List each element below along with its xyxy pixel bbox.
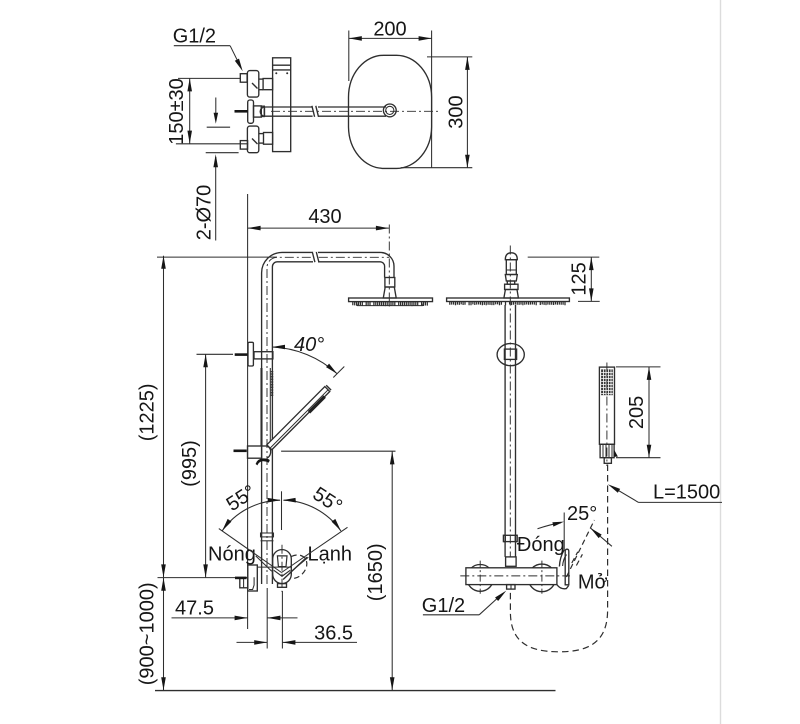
- hand shower collar ribs: [603, 444, 612, 457]
- svg-text:G1/2: G1/2: [173, 26, 216, 48]
- svg-text:Nóng: Nóng: [208, 543, 256, 565]
- wall bracket ring (side): [497, 344, 524, 366]
- hose outlet (side): [507, 585, 515, 590]
- overhead shower (side view): [447, 298, 570, 302]
- svg-text:200: 200: [373, 19, 406, 41]
- label G1/2 (bottom) with leader: [422, 591, 507, 617]
- mixer centreline (front vertical): [281, 545, 283, 592]
- svg-text:40°: 40°: [294, 334, 324, 356]
- svg-text:G1/2: G1/2: [422, 595, 465, 617]
- side riser pipe: [505, 305, 515, 557]
- svg-text:150±30: 150±30: [166, 78, 188, 145]
- 40 deg swing arc: [272, 347, 337, 374]
- dimension 36.5: [237, 623, 358, 645]
- mixer wall flange (front): [240, 565, 257, 591]
- svg-text:Lạnh: Lạnh: [308, 543, 353, 565]
- dimension (1650): [281, 451, 395, 690]
- svg-text:125: 125: [569, 262, 591, 295]
- wall line: [247, 194, 249, 629]
- mixer centreline (side horizontal): [460, 575, 570, 577]
- label 2-Ø70: [194, 153, 239, 241]
- collar wedge: [614, 450, 618, 457]
- extension line at arm level: [157, 256, 277, 258]
- label L=1500 with leader: [608, 482, 722, 504]
- overhead shower nozzles (front): [353, 302, 428, 306]
- svg-text:205: 205: [626, 396, 648, 429]
- top ball joint (side): [504, 253, 519, 298]
- dimension (1225): [137, 256, 166, 578]
- dimension (995): [179, 354, 208, 577]
- slide bar (front): [262, 368, 271, 446]
- page divider line: [720, 0, 722, 724]
- svg-text:(900~1000): (900~1000): [137, 582, 159, 685]
- dimension (900~1000): [137, 578, 166, 691]
- svg-text:2-Ø70: 2-Ø70: [194, 185, 216, 241]
- overhead shower centreline (front): [388, 225, 390, 309]
- svg-text:(995): (995): [179, 440, 201, 487]
- holder swivel arrow: [256, 458, 270, 465]
- mixer body (side): [466, 568, 557, 585]
- dimension 125: [528, 257, 600, 301]
- arm centreline bold wall stub: [235, 110, 248, 113]
- hand shower spray band (front): [309, 397, 325, 413]
- hand shower (side view): [599, 367, 614, 463]
- lever axis closed (reference line): [563, 513, 565, 552]
- riser pipe with top elbow (front): [262, 252, 394, 584]
- valve centre ticks: [480, 561, 542, 594]
- shower hose (dashed): [510, 465, 607, 652]
- pipe union joint (front): [261, 533, 274, 541]
- cold water inlet fitting (plan, bottom): [240, 126, 272, 153]
- svg-text:L=1500: L=1500: [653, 482, 720, 504]
- svg-text:Mở: Mở: [578, 572, 608, 594]
- arm centreline (plan): [271, 110, 441, 112]
- dimension 430: [248, 206, 389, 230]
- mixer body (front): diverter stadium: [257, 550, 291, 588]
- 55°/55° swivel fan: [219, 481, 348, 572]
- reference line at mixer level: [158, 577, 236, 579]
- mixer lever phantom (front, dashed): [291, 555, 307, 579]
- svg-text:300: 300: [445, 95, 467, 128]
- svg-text:36.5: 36.5: [314, 623, 353, 645]
- arm break mark (plan): [313, 106, 318, 118]
- bracket clamp: [504, 349, 516, 359]
- svg-text:430: 430: [308, 206, 341, 228]
- floor line: [155, 690, 556, 692]
- mixer lever edge (front): [283, 557, 307, 579]
- dimension 47.5: [172, 598, 298, 621]
- overhead shower nozzles (side): [450, 301, 565, 305]
- bracket wall stub (bold): [235, 353, 248, 356]
- left valve cap (side): [467, 565, 494, 592]
- pipe union joint (side): [503, 535, 517, 541]
- dimension 200: [349, 19, 432, 168]
- wall plate (plan): [273, 58, 291, 152]
- shower arm wall flange (plan): [248, 100, 265, 123]
- extension lines below mixer: [266, 588, 268, 649]
- slide bar top bracket: [248, 342, 273, 366]
- dimension 300: [401, 57, 473, 168]
- svg-text:47.5: 47.5: [175, 598, 214, 620]
- lever axis open (dashed, 25°): [566, 520, 594, 577]
- right valve cap (side): [528, 564, 556, 592]
- extension line at bracket level: [197, 353, 234, 355]
- label G1/2 (top): [173, 26, 243, 72]
- dimension 150±30: [166, 78, 248, 145]
- hand shower in holder at 40 deg: [267, 387, 330, 450]
- hand shower spray face (side, hatched): [601, 369, 613, 395]
- hand shower centreline: [606, 363, 608, 467]
- 40 deg axis tick: [333, 367, 344, 378]
- side riser centreline: [509, 246, 511, 558]
- lever handle (side, closed): [557, 549, 569, 589]
- overhead shower (front view): [349, 298, 433, 306]
- holder wall stub (bold): [234, 449, 247, 452]
- svg-text:25°: 25°: [567, 503, 597, 525]
- arm nut and cone (front): [383, 278, 396, 299]
- arm break mark (front): [313, 252, 318, 263]
- svg-text:(1225): (1225): [137, 383, 159, 441]
- plate screws: [275, 72, 277, 74]
- 25 deg angle arrows: [538, 523, 562, 529]
- overhead shower (plan view, 200x300): [349, 55, 432, 168]
- hot water inlet fitting (plan, top): [240, 71, 272, 98]
- dimension 205: [616, 367, 661, 458]
- inlet nut (side): [506, 557, 516, 566]
- svg-text:(1650): (1650): [365, 543, 387, 601]
- shower arm (plan): [260, 107, 386, 116]
- hand shower tip cap (front): [326, 385, 331, 390]
- arm ball joint (plan): [383, 104, 396, 117]
- slide bar ratchet band: [271, 372, 274, 396]
- riser centreline (front): [267, 257, 389, 584]
- hand shower holder (front): [248, 446, 271, 458]
- svg-text:Đóng: Đóng: [517, 534, 565, 556]
